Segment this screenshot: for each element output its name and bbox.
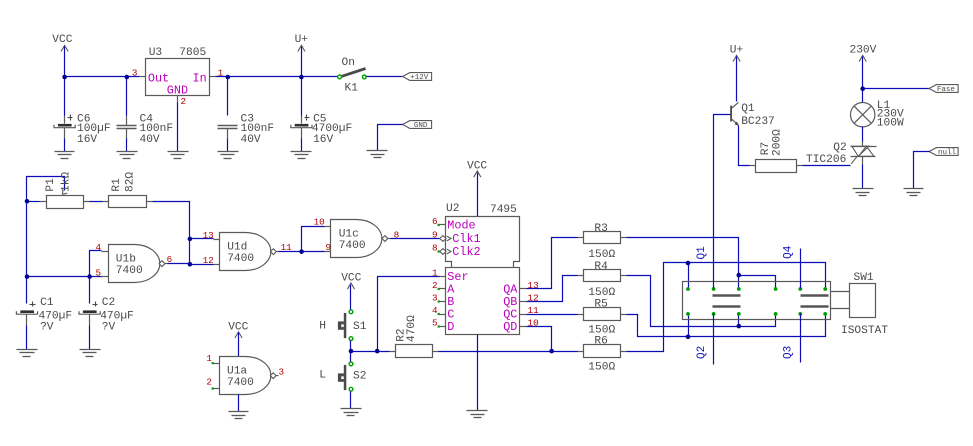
svg-text:U1c: U1c: [339, 229, 359, 241]
pin terminal K1 left: [338, 75, 342, 79]
svg-text:Clk1: Clk1: [452, 232, 480, 246]
svg-text:C2: C2: [102, 297, 115, 309]
resistor R7 200ohm: [750, 129, 803, 173]
nand gate U1b 7400: [102, 245, 168, 283]
svg-text:Q1: Q1: [741, 103, 755, 115]
capacitor C4 100nF 40V: [117, 113, 174, 146]
ground below U2: [467, 410, 488, 412]
wire QD down to R2 node: [527, 327, 552, 352]
svg-text:2: 2: [181, 96, 187, 107]
wire VCC to U1a power pin: [238, 333, 240, 357]
wire R4 to SW1 pins 3bot/4bot: [627, 276, 776, 327]
wire R6 to SW1 pins 1top/6top: [627, 263, 826, 352]
resistor R2 470ohm: [390, 315, 439, 358]
svg-text:?V: ?V: [40, 321, 54, 333]
shift register U2 7495 upper section: [439, 203, 520, 268]
node junction Y pin12: [188, 262, 193, 267]
node junction Fase tap: [860, 86, 865, 91]
pin SW1 top column 1: [686, 287, 690, 291]
wire node-X to P1 left: [27, 201, 40, 203]
net flag +12V: [403, 73, 432, 81]
pushbutton S1 (H): [338, 313, 367, 338]
svg-text:7400: 7400: [339, 240, 366, 252]
wire U1b output to node Y: [168, 263, 190, 265]
wire Q1 emitter to R7: [739, 126, 750, 166]
svg-text:S1: S1: [353, 321, 367, 333]
wire null flag to ground: [914, 152, 930, 189]
svg-text:5: 5: [432, 318, 438, 329]
svg-text:R7: R7: [760, 142, 772, 155]
svg-text:6: 6: [432, 216, 438, 227]
nand gate U1a 7400 (spare): [213, 357, 279, 395]
pin terminal S1 top: [349, 310, 353, 314]
wire QC to R5: [527, 314, 578, 316]
svg-text:40V: 40V: [140, 134, 160, 146]
node junction S1/S2: [349, 349, 354, 354]
node junction C3 tap: [226, 75, 231, 80]
svg-text:1kΩ: 1kΩ: [61, 172, 73, 192]
wire net Q4 stub: [800, 249, 802, 289]
wire U3 pin2 to ground: [177, 103, 179, 152]
switch contact bar section B top: [801, 294, 829, 296]
svg-text:Q2: Q2: [696, 346, 708, 359]
node junction R6 split: [686, 261, 691, 266]
svg-text:16V: 16V: [77, 134, 97, 146]
svg-text:VCC: VCC: [341, 272, 361, 284]
svg-text:7495: 7495: [490, 204, 517, 216]
svg-text:Q1: Q1: [696, 246, 708, 260]
svg-text:TIC206: TIC206: [806, 154, 846, 166]
svg-text:U1d: U1d: [227, 242, 247, 254]
pin SW1 bottom column 3: [737, 312, 741, 316]
pin open end U2 Mode: [438, 224, 440, 226]
svg-text:QD: QD: [503, 320, 517, 334]
wire U+ to Q1 collector: [736, 57, 738, 102]
svg-text:S2: S2: [353, 370, 366, 382]
wire C1 to ground: [26, 326, 28, 350]
node junction U+/C5 tap: [299, 75, 304, 80]
svg-text:7400: 7400: [227, 253, 254, 265]
node junction X / C2 / pin4: [87, 274, 92, 279]
wire U+ arrow stem: [301, 47, 303, 77]
svg-text:BC237: BC237: [741, 116, 775, 128]
svg-text:U+: U+: [295, 34, 309, 46]
wire U1a to ground: [238, 395, 240, 412]
svg-text:P1: P1: [45, 178, 57, 192]
node junction X / P1: [25, 199, 30, 204]
svg-text:470Ω: 470Ω: [406, 315, 418, 342]
nand gate U1c 7400: [325, 220, 391, 258]
wire U2 ground pin: [477, 335, 479, 411]
svg-text:4: 4: [96, 242, 102, 253]
wire lamp to triac: [862, 127, 864, 142]
node junction R3 split: [737, 273, 742, 278]
ground below null flag: [904, 188, 924, 190]
wire node-Y top loop to potentiometer wiper: [27, 177, 65, 201]
svg-text:Q2: Q2: [833, 142, 846, 154]
svg-text:U3: U3: [149, 47, 162, 59]
triac Q2 TIC206: [806, 142, 877, 167]
power symbol VCC (top left): [52, 34, 72, 51]
pin terminal S2 top: [349, 362, 353, 366]
svg-text:U1b: U1b: [116, 254, 136, 266]
svg-text:40V: 40V: [241, 134, 261, 146]
pin SW1 top column 2: [712, 287, 716, 291]
wire QA to R3: [527, 238, 578, 289]
resistor R4 150ohm: [578, 261, 627, 299]
svg-text:9: 9: [325, 242, 331, 253]
svg-text:12: 12: [203, 255, 214, 266]
wire VCC to U2: [477, 173, 479, 217]
wire C5 to ground: [301, 139, 303, 152]
svg-text:3: 3: [432, 293, 438, 304]
svg-text:5: 5: [96, 267, 102, 278]
svg-text:Clk2: Clk2: [452, 245, 480, 259]
potentiometer P1 1k wiper arrow: [62, 190, 67, 195]
switch contact bar section B bottom: [801, 305, 829, 307]
pushbutton S2 (L): [338, 365, 367, 390]
svg-text:?V: ?V: [102, 321, 116, 333]
svg-text:82Ω: 82Ω: [125, 172, 137, 192]
net flag Fase: [929, 85, 958, 93]
svg-text:K1: K1: [345, 83, 359, 95]
switch assembly SW1 ISOSTAT body: [683, 272, 889, 337]
svg-text:7400: 7400: [227, 377, 254, 389]
pin SW1 bottom column 5: [798, 312, 802, 316]
wire U1c output to U2 Clk1: [391, 238, 440, 240]
ground below C4: [117, 151, 138, 153]
svg-text:L: L: [319, 370, 326, 382]
wire net Q1 from SW1 to Q1 base: [714, 115, 731, 289]
power symbol U+ (above C5): [295, 34, 309, 51]
svg-text:H: H: [319, 320, 326, 332]
node junction U1c inputs: [299, 249, 304, 254]
svg-text:R5: R5: [594, 299, 607, 311]
svg-text:150Ω: 150Ω: [588, 324, 615, 336]
node junction R4 split: [737, 324, 742, 329]
svg-text:D: D: [447, 320, 454, 334]
svg-text:C1: C1: [40, 297, 54, 309]
potentiometer P1 1k body: [40, 172, 90, 209]
pin SW1 top column 6: [823, 287, 827, 291]
wire C3 to ground: [227, 139, 229, 152]
wire S1/S2 node to R2 and Ser feedback: [353, 277, 440, 352]
pin open end U1a pin1: [212, 362, 214, 364]
svg-text:R4: R4: [594, 261, 608, 273]
svg-text:U2: U2: [446, 203, 459, 215]
pin open end U2 D: [438, 325, 440, 327]
capacitor C1 470uF ?V: [16, 297, 72, 333]
power symbol 230V: [850, 44, 877, 61]
ground below U1a: [229, 411, 249, 413]
svg-text:2: 2: [206, 376, 212, 387]
svg-text:R1: R1: [111, 178, 123, 192]
pin terminal K1 right: [362, 75, 366, 79]
svg-text:Q4: Q4: [783, 245, 795, 259]
wire R2 to QD node and R6: [439, 351, 578, 353]
capacitor C3 100nF 40V: [218, 113, 275, 146]
svg-text:In: In: [193, 71, 207, 85]
svg-text:3: 3: [132, 68, 138, 79]
pin terminal S2 bottom: [349, 387, 353, 391]
switch contact bar section A bottom: [713, 305, 741, 307]
node junction VCC/C4: [125, 75, 130, 80]
wire net Q2 stub: [713, 314, 715, 365]
net flag null: [929, 148, 958, 156]
voltage regulator U3 7805: [140, 47, 216, 103]
svg-text:7805: 7805: [179, 47, 206, 59]
wire K1 to +12V flag: [367, 76, 403, 78]
lamp L1 230V 100W: [851, 100, 904, 129]
svg-text:150Ω: 150Ω: [588, 361, 615, 373]
resistor R3 150ohm: [578, 223, 627, 261]
svg-text:200Ω: 200Ω: [772, 129, 784, 156]
pin open end U2 A: [438, 288, 440, 290]
svg-text:10: 10: [314, 216, 325, 227]
pin open end U2 B: [438, 300, 440, 302]
ground below GND flag: [367, 150, 388, 152]
svg-text:4: 4: [432, 305, 438, 316]
ground below C6: [55, 151, 75, 153]
node junction Ser feedback: [375, 349, 380, 354]
ground below C1: [17, 349, 38, 351]
svg-text:Mode: Mode: [447, 218, 475, 232]
power symbol VCC (above U2): [467, 161, 487, 178]
resistor R5 150ohm: [578, 299, 627, 337]
wire R5 to SW1 pins 1bot/6bot: [627, 314, 826, 337]
wire node-X horizontal to U1b inputs: [27, 251, 102, 277]
svg-text:3: 3: [279, 366, 285, 377]
svg-text:R6: R6: [594, 336, 607, 348]
wire net Q3 stub: [800, 314, 802, 363]
svg-text:U1a: U1a: [227, 366, 247, 378]
capacitor C2 470uF ?V: [79, 277, 134, 334]
node junction VCC/C6: [62, 75, 67, 80]
wire node-X vertical rail: [26, 202, 28, 304]
svg-text:13: 13: [203, 230, 214, 241]
svg-text:100W: 100W: [877, 117, 904, 129]
svg-text:1: 1: [206, 353, 212, 364]
ground below S2: [341, 408, 362, 410]
node junction QD/R2/R6: [549, 349, 554, 354]
svg-text:Fase: Fase: [937, 86, 955, 94]
capacitor C5 4700uF 16V: [291, 113, 352, 146]
svg-text:null: null: [938, 149, 957, 157]
net flag GND: [403, 121, 432, 129]
pin SW1 top column 3: [737, 287, 741, 291]
svg-text:ISOSTAT: ISOSTAT: [841, 325, 888, 337]
ground below triac: [853, 188, 874, 190]
ground below C3: [218, 151, 239, 153]
wire QB to R4: [527, 276, 578, 302]
wire S2 to ground: [350, 392, 352, 409]
svg-text:GND: GND: [414, 122, 428, 130]
svg-text:16V: 16V: [313, 134, 333, 146]
svg-text:7400: 7400: [116, 265, 143, 277]
svg-text:SW1: SW1: [854, 272, 874, 284]
svg-text:Q3: Q3: [783, 346, 795, 359]
node junction X / C1: [25, 274, 30, 279]
svg-text:R3: R3: [594, 223, 607, 235]
wire R7 to Q2 gate: [803, 165, 851, 167]
pin SW1 top column 4: [774, 287, 778, 291]
pin SW1 bottom column 2: [712, 312, 716, 316]
svg-text:9: 9: [432, 230, 438, 241]
ground below C2: [80, 349, 101, 351]
svg-text:230V: 230V: [850, 44, 877, 56]
ground below U3: [168, 151, 189, 153]
wire VCC to S1: [350, 285, 352, 310]
svg-text:+12V: +12V: [410, 74, 429, 82]
power symbol VCC (above S1): [341, 272, 361, 289]
svg-text:150Ω: 150Ω: [588, 287, 615, 299]
pin SW1 bottom column 6: [823, 312, 827, 316]
wire GND flag to ground: [378, 125, 403, 151]
wire VCC rail to C6/C4/7805: [65, 47, 140, 116]
pin SW1 bottom column 1: [686, 312, 690, 316]
capacitor C6 100uF 16V: [54, 113, 111, 146]
wire R1 to node-Y / U1d inputs: [153, 202, 214, 265]
svg-text:150Ω: 150Ω: [588, 249, 615, 261]
wire R3 to SW1 pins 3top/4top: [627, 238, 776, 289]
svg-text:On: On: [342, 57, 355, 69]
wire U1d output to U1c inputs: [279, 227, 325, 252]
pin open end U2 Clk2: [438, 250, 440, 252]
transistor Q1 BC237: [730, 102, 775, 128]
wire C4 to ground: [126, 139, 128, 152]
wire P1 to R1: [90, 201, 103, 203]
switch K1 On: [341, 57, 365, 95]
wire U3 pin1 to K1 with C3/C5 taps: [216, 77, 338, 116]
switch contact bar section A top: [713, 294, 741, 296]
node junction Y pin13: [188, 237, 193, 242]
svg-text:8: 8: [432, 243, 438, 254]
wire C6 to ground: [64, 139, 66, 152]
pin SW1 top column 5: [798, 287, 802, 291]
wire triac to ground: [862, 165, 864, 189]
pin open end U2 C: [438, 313, 440, 315]
power symbol U+ (above Q1): [730, 44, 744, 61]
svg-text:2: 2: [432, 280, 438, 291]
wire S1 to S2: [350, 341, 352, 362]
pin open end U1a pin2: [212, 388, 214, 390]
pin SW1 bottom column 4: [774, 312, 778, 316]
resistor R6 150ohm: [578, 336, 627, 374]
svg-text:VCC: VCC: [52, 34, 72, 46]
shift register U2 7495 lower section: [440, 268, 527, 335]
pin terminal S1 bottom: [349, 337, 353, 341]
resistor R1 82ohm: [103, 172, 153, 208]
svg-text:13: 13: [528, 280, 539, 291]
ground below C5: [291, 151, 312, 153]
wire C2 to ground: [89, 326, 91, 350]
wire 230V to lamp and Fase flag: [863, 57, 930, 103]
nand gate U1d 7400: [214, 233, 279, 271]
node junction R5 split: [686, 335, 691, 340]
power symbol VCC (above U1a): [228, 321, 248, 338]
